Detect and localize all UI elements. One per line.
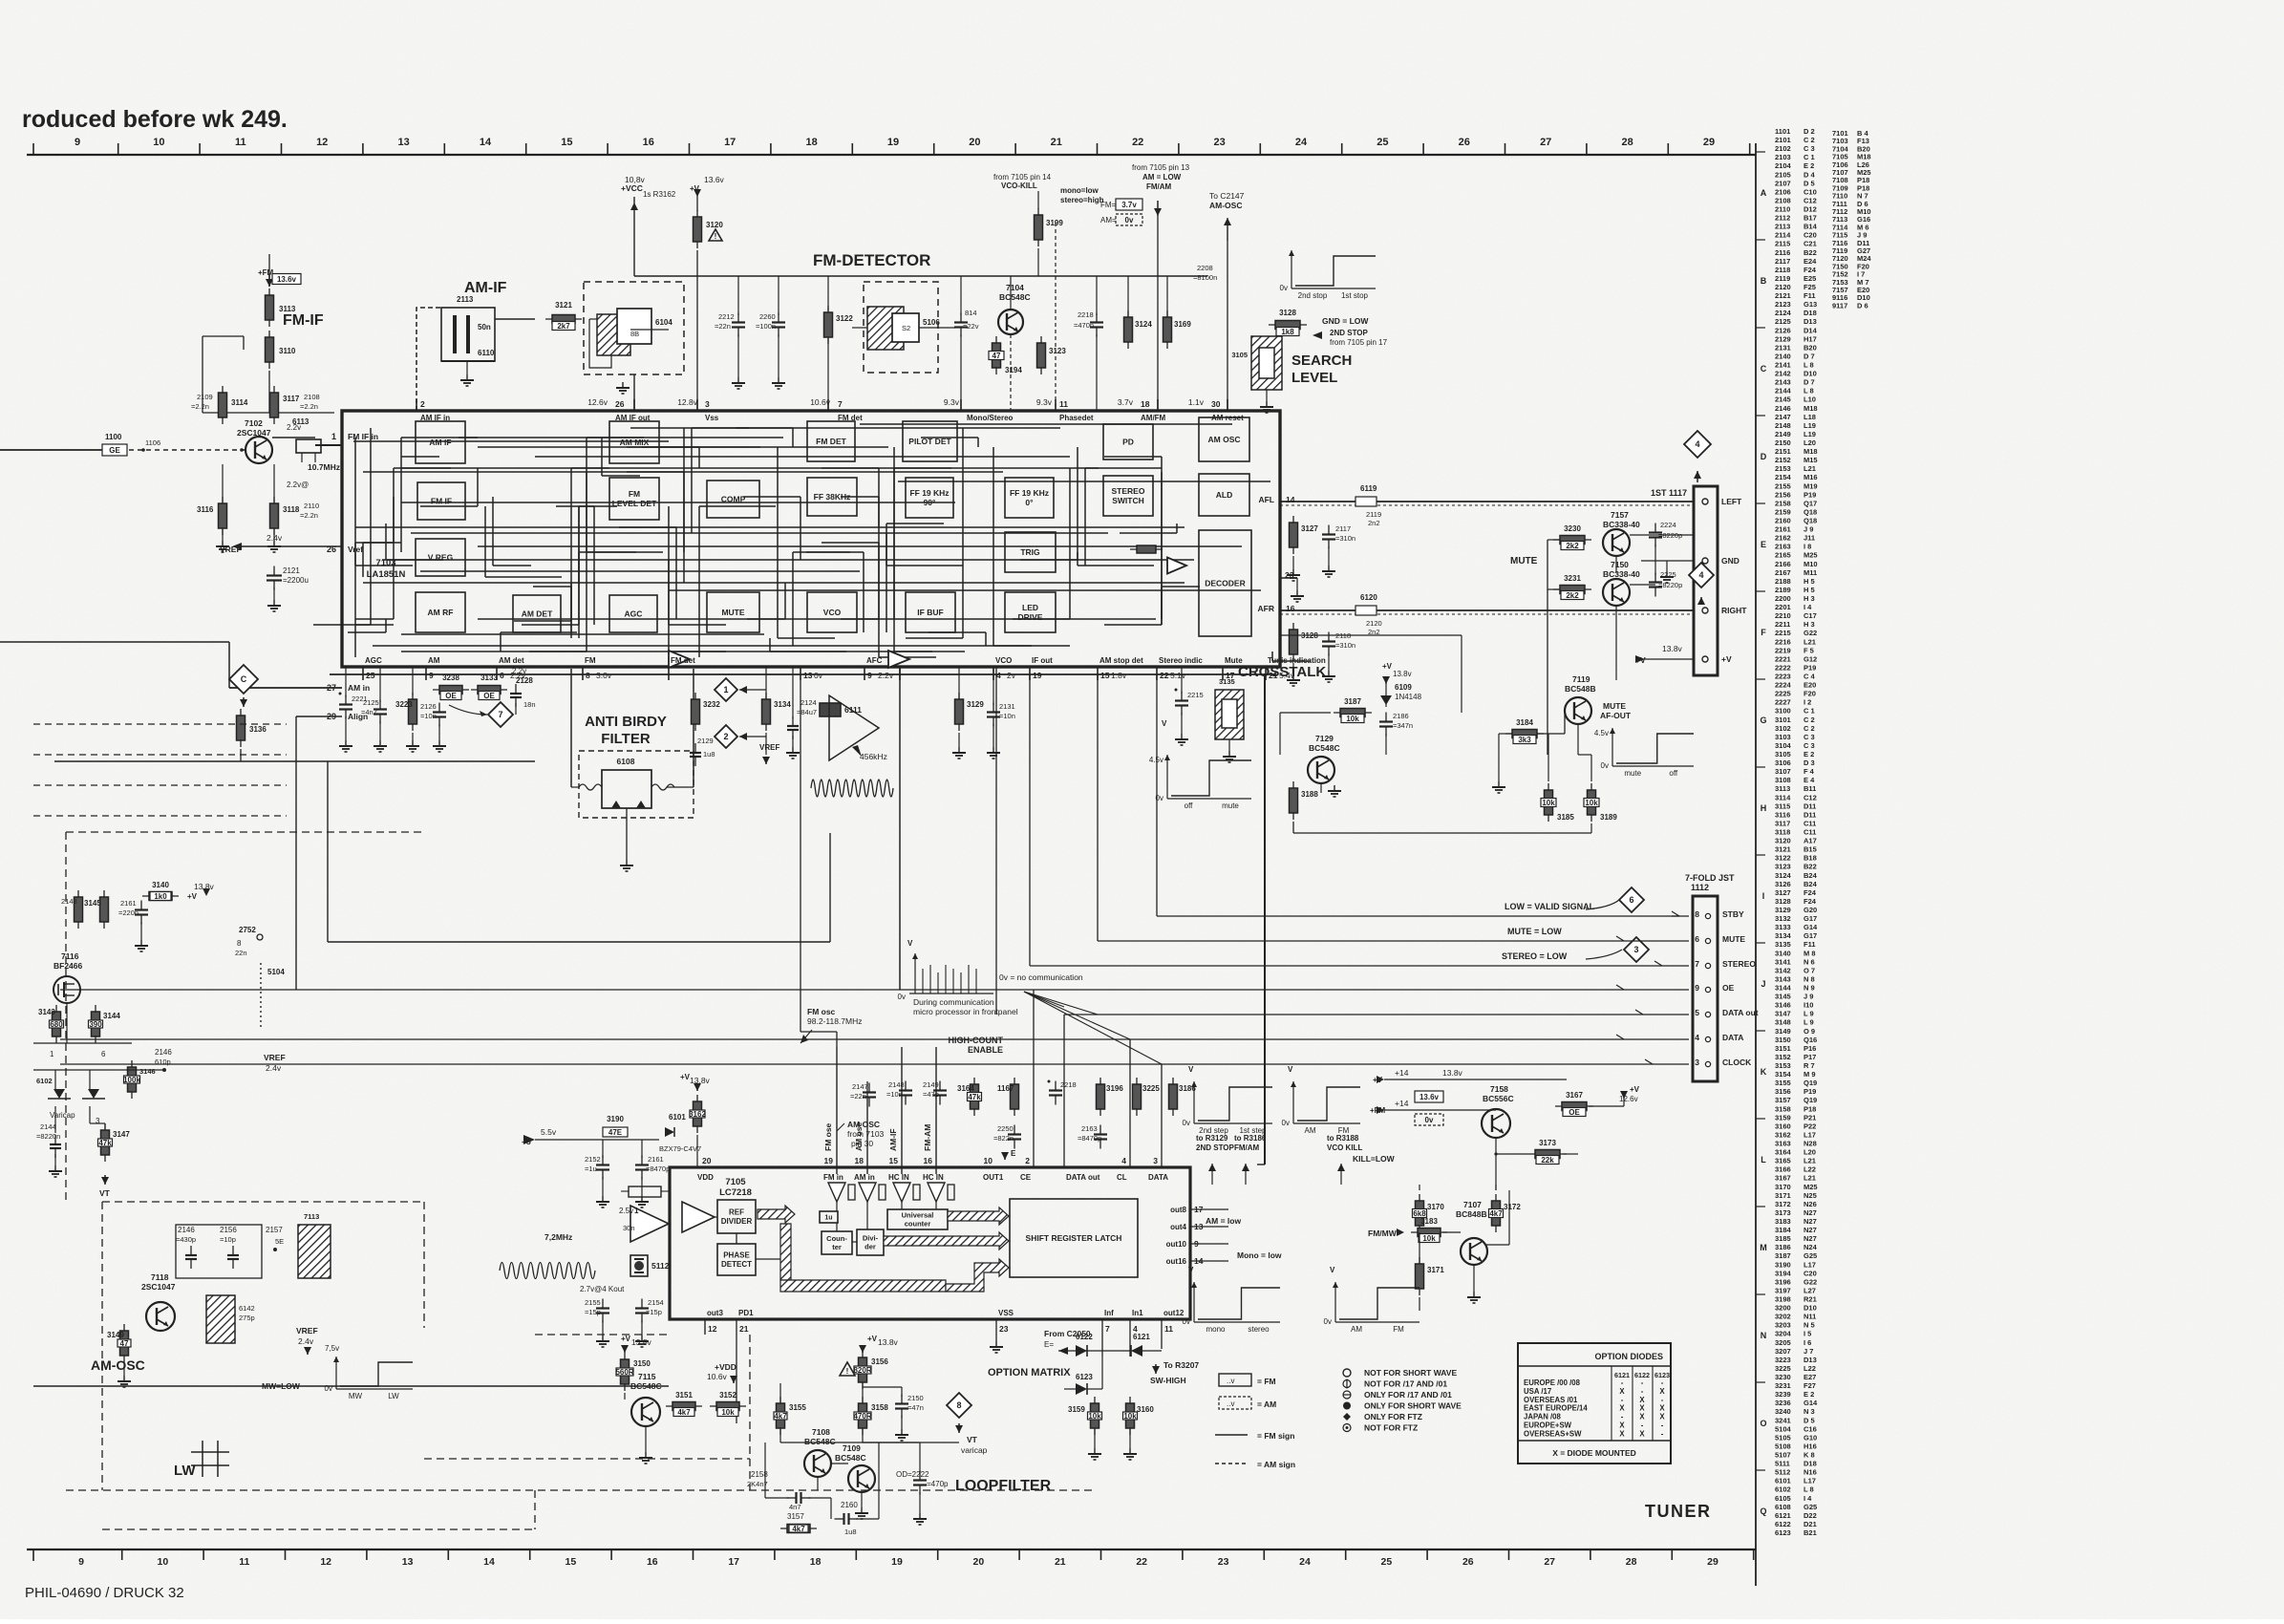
svg-text:AM IF in: AM IF in	[420, 414, 450, 422]
svg-text:C 2: C 2	[1804, 716, 1815, 724]
svg-text:FM/MW: FM/MW	[1368, 1229, 1398, 1238]
svg-text:3187: 3187	[1344, 697, 1361, 706]
svg-text:-: -	[1641, 1378, 1644, 1387]
svg-text:D12: D12	[1804, 205, 1817, 214]
svg-text:ONLY FOR FTZ: ONLY FOR FTZ	[1364, 1412, 1422, 1421]
svg-text:3146: 3146	[139, 1067, 156, 1076]
svg-text:H17: H17	[1804, 334, 1817, 343]
svg-text:GND = LOW: GND = LOW	[1322, 316, 1369, 326]
svg-text:2113: 2113	[457, 295, 474, 304]
svg-text:AM=: AM=	[1100, 216, 1117, 224]
svg-text:0v: 0v	[1125, 216, 1134, 224]
resistor 3145	[103, 890, 105, 929]
svg-text:N27: N27	[1804, 1234, 1817, 1243]
svg-text:C 3: C 3	[1804, 733, 1815, 741]
svg-text:O 9: O 9	[1804, 1027, 1815, 1036]
svg-text:E 2: E 2	[1804, 161, 1814, 170]
svg-text:LOOPFILTER: LOOPFILTER	[955, 1478, 1052, 1494]
svg-text:8: 8	[586, 671, 590, 680]
svg-text:C20: C20	[1804, 231, 1817, 240]
svg-text:2116: 2116	[1775, 248, 1790, 257]
wire filter 6104 down to IC pin	[633, 374, 635, 411]
svg-text:4k7: 4k7	[792, 1525, 805, 1533]
svg-text:2120: 2120	[1366, 619, 1382, 628]
svg-text:from 7103: from 7103	[847, 1129, 885, 1139]
svg-text:22: 22	[1132, 137, 1143, 148]
svg-text:3124: 3124	[1135, 320, 1152, 329]
svg-text:G12: G12	[1804, 654, 1817, 663]
long wire OE	[60, 989, 1689, 991]
svg-text:USA /17: USA /17	[1524, 1387, 1551, 1396]
step waveform off-mute left	[1166, 755, 1168, 799]
step waveform mute off	[1612, 728, 1613, 766]
svg-text:0v: 0v	[898, 993, 906, 1001]
resistor 3115	[222, 497, 224, 535]
IC internal block AGC	[609, 595, 657, 632]
resistor 3169	[1166, 310, 1168, 349]
svg-text:=22n: =22n	[850, 1092, 866, 1100]
svg-text:Phasedet: Phasedet	[1059, 414, 1094, 422]
svg-text:2124: 2124	[1775, 309, 1792, 317]
supply +FM 13.6v	[268, 273, 270, 287]
svg-text:2155: 2155	[1775, 481, 1791, 490]
svg-text:2118: 2118	[1775, 266, 1790, 274]
svg-text:stereo=high: stereo=high	[1060, 196, 1104, 204]
svg-text:ONLY FOR SHORT WAVE: ONLY FOR SHORT WAVE	[1364, 1401, 1462, 1411]
capacitor 2260 100n	[778, 313, 779, 323]
svg-text:5: 5	[1695, 1008, 1699, 1017]
svg-text:to R3188: to R3188	[1327, 1134, 1359, 1143]
svg-text:7: 7	[838, 399, 843, 409]
diamond 4 mid	[1689, 563, 1714, 588]
diamond 6	[1619, 887, 1644, 912]
svg-text:3123: 3123	[1049, 347, 1066, 355]
wire AFL line to connector LEFT	[1280, 501, 1694, 502]
svg-text:P21: P21	[1804, 1113, 1816, 1122]
svg-text:AGC: AGC	[365, 656, 382, 665]
svg-text:6109: 6109	[1395, 683, 1412, 692]
svg-text:L17: L17	[1804, 1260, 1816, 1269]
svg-text:2144: 2144	[1775, 387, 1792, 395]
svg-text:+V: +V	[1382, 662, 1393, 671]
svg-text:11: 11	[1164, 1324, 1173, 1334]
svg-text:27: 27	[1544, 1556, 1555, 1568]
svg-text:=310n: =310n	[1335, 641, 1355, 650]
svg-text:2151: 2151	[1775, 447, 1791, 456]
svg-text:+5: +5	[522, 1137, 531, 1146]
wire FM osc vertical to LC7218	[800, 680, 801, 1032]
svg-text:FM IF in: FM IF in	[348, 432, 378, 441]
svg-text:814: 814	[965, 309, 977, 317]
svg-text:varicap: varicap	[961, 1445, 988, 1455]
svg-text:2106: 2106	[1775, 187, 1791, 196]
svg-text:+V: +V	[187, 892, 198, 901]
wire 7158 collector to resistor 3173	[1495, 1138, 1497, 1190]
svg-text:9.3v: 9.3v	[1036, 397, 1053, 407]
diode 6101	[665, 1127, 674, 1137]
svg-text:D18: D18	[1804, 1460, 1817, 1468]
svg-text:3157: 3157	[787, 1512, 804, 1521]
resistor 3190 47E	[608, 1131, 622, 1133]
resistor 3230	[1553, 539, 1591, 541]
svg-text:B17: B17	[1804, 214, 1817, 223]
svg-text:OE: OE	[1569, 1108, 1580, 1117]
svg-text:IF out: IF out	[1032, 656, 1053, 665]
svg-text:3203: 3203	[1775, 1321, 1791, 1330]
svg-text:7118: 7118	[151, 1272, 169, 1282]
svg-text:AGC: AGC	[625, 609, 643, 618]
capacitor 2224 220p	[1654, 524, 1656, 533]
svg-text:6121: 6121	[1775, 1511, 1791, 1520]
svg-text:DATA: DATA	[1722, 1033, 1743, 1042]
svg-text:SEARCH: SEARCH	[1291, 353, 1352, 369]
svg-text:from 7105 pin 14: from 7105 pin 14	[993, 173, 1052, 182]
svg-text:D 5: D 5	[1804, 179, 1815, 187]
svg-text:X: X	[1639, 1413, 1645, 1421]
capacitor 2125 4n7	[379, 700, 381, 710]
svg-text:24: 24	[1295, 137, 1308, 148]
long wire DATA out	[1064, 1014, 1689, 1015]
svg-text:6102: 6102	[1775, 1485, 1791, 1494]
svg-text:N 6: N 6	[1804, 957, 1815, 966]
svg-text:=47n: =47n	[907, 1403, 924, 1412]
svg-text:47k: 47k	[98, 1139, 112, 1147]
step waveform mono stereo	[1193, 1282, 1195, 1322]
hatched pot 3135 crosstalk	[1215, 690, 1244, 739]
IC internal block VCO	[807, 592, 857, 632]
svg-text:BC338-40: BC338-40	[1603, 569, 1640, 579]
half divider box	[820, 1211, 838, 1223]
svg-text:7104: 7104	[1006, 283, 1024, 292]
svg-text:0v = no communication: 0v = no communication	[999, 972, 1083, 982]
svg-text:AM stop det: AM stop det	[1099, 656, 1143, 665]
svg-text:A: A	[1761, 188, 1767, 198]
svg-text:1101: 1101	[1775, 127, 1790, 136]
svg-text:3171: 3171	[1427, 1266, 1444, 1274]
svg-text:NOT FOR FTZ: NOT FOR FTZ	[1364, 1423, 1418, 1433]
inductor 5104 dotted	[260, 963, 262, 1027]
svg-text:K 8: K 8	[1804, 1451, 1815, 1460]
IC internal block LED DRIVE	[1005, 592, 1056, 632]
svg-text:MUTE: MUTE	[1603, 701, 1626, 711]
resistor 3151 4k7	[666, 1405, 702, 1407]
svg-text:3121: 3121	[1775, 845, 1791, 854]
svg-text:L21: L21	[1804, 637, 1816, 646]
svg-text:27: 27	[1540, 137, 1551, 148]
svg-text:=430p: =430p	[176, 1235, 196, 1244]
svg-text:OVERSEAS+SW: OVERSEAS+SW	[1524, 1429, 1582, 1438]
wire CE vertical	[1033, 990, 1035, 1167]
svg-text:7-FOLD JST: 7-FOLD JST	[1685, 873, 1735, 883]
svg-text:1.8v: 1.8v	[1111, 671, 1127, 680]
svg-text:2227: 2227	[1775, 698, 1791, 707]
svg-text:10: 10	[158, 1556, 169, 1568]
svg-text:3120: 3120	[1775, 837, 1791, 845]
svg-text:LED: LED	[1022, 603, 1038, 612]
svg-text:3187: 3187	[1775, 1251, 1791, 1260]
svg-text:2210: 2210	[1775, 611, 1791, 620]
svg-text:VREF: VREF	[759, 743, 779, 752]
svg-text:22k: 22k	[1541, 1156, 1554, 1165]
svg-text:!: !	[846, 1367, 849, 1376]
wire 7119 collector	[1615, 606, 1617, 680]
wire emitter network	[222, 464, 224, 502]
svg-text:3: 3	[1695, 1058, 1699, 1067]
svg-text:VREF: VREF	[264, 1053, 286, 1062]
svg-text:J 9: J 9	[1804, 525, 1813, 534]
svg-text:1u: 1u	[824, 1214, 832, 1221]
svg-text:3117: 3117	[283, 395, 300, 403]
long wire DATA	[60, 1038, 1689, 1040]
svg-text:+V: +V	[1721, 654, 1732, 664]
svg-text:13.8v: 13.8v	[878, 1337, 899, 1347]
svg-text:C 2: C 2	[1804, 724, 1815, 733]
svg-text:M10: M10	[1804, 560, 1818, 568]
svg-text:3147: 3147	[113, 1130, 130, 1139]
svg-text:E 2: E 2	[1804, 750, 1814, 759]
svg-text:3166: 3166	[1775, 1165, 1791, 1174]
svg-text:7150: 7150	[1611, 560, 1629, 569]
svg-text:AF-OUT: AF-OUT	[1600, 711, 1632, 720]
svg-text:CLOCK: CLOCK	[1722, 1058, 1752, 1067]
svg-text:10k: 10k	[721, 1408, 735, 1417]
svg-text:10k: 10k	[1346, 715, 1359, 723]
warning triangle 2	[840, 1362, 855, 1376]
svg-text:G22: G22	[1804, 629, 1817, 637]
svg-text:ANTI BIRDY: ANTI BIRDY	[585, 714, 667, 730]
svg-text:3169: 3169	[1174, 320, 1191, 329]
svg-text:2200: 2200	[1775, 594, 1791, 603]
resistor 3173 22k	[1528, 1153, 1567, 1155]
svg-text:3102: 3102	[1775, 724, 1791, 733]
resistor 3172	[1495, 1194, 1497, 1232]
diamond 2	[715, 725, 737, 748]
svg-text:2ND STOP: 2ND STOP	[1196, 1143, 1235, 1152]
svg-text:L18: L18	[1804, 413, 1816, 421]
svg-text:3108: 3108	[1775, 776, 1791, 784]
svg-text:=10n: =10n	[420, 712, 437, 720]
svg-text:+V: +V	[690, 184, 700, 193]
op-amp U7103 outline (LA1851N)	[342, 411, 1280, 667]
svg-text:mute: mute	[1222, 801, 1239, 810]
svg-text:3148: 3148	[1775, 1018, 1791, 1027]
svg-text:AM-IF: AM-IF	[464, 280, 507, 296]
svg-text:3120: 3120	[706, 221, 723, 229]
svg-text:3231: 3231	[1775, 1381, 1791, 1390]
svg-text:OE: OE	[1722, 983, 1735, 993]
svg-text:3128: 3128	[1279, 309, 1296, 317]
wire GND connector	[1641, 560, 1694, 562]
svg-text:3170: 3170	[1775, 1183, 1791, 1191]
dashed horizontal bottom	[66, 1489, 1094, 1491]
svg-text:C 1: C 1	[1804, 707, 1815, 716]
svg-text:16: 16	[924, 1156, 933, 1165]
svg-text:X: X	[1639, 1429, 1645, 1438]
svg-text:+V: +V	[1630, 1085, 1640, 1094]
svg-text:VCO: VCO	[823, 608, 842, 617]
svg-text:2126: 2126	[1775, 326, 1791, 334]
svg-text:3135: 3135	[1775, 940, 1791, 949]
svg-text:7105: 7105	[725, 1177, 746, 1187]
svg-text:G20: G20	[1804, 906, 1817, 914]
svg-text:VSS: VSS	[998, 1309, 1014, 1317]
svg-text:-: -	[1621, 1413, 1624, 1421]
svg-text:M18: M18	[1804, 404, 1818, 413]
svg-text:M19: M19	[1804, 481, 1818, 490]
svg-text:13.8v: 13.8v	[1662, 644, 1683, 653]
svg-text:7157: 7157	[1611, 510, 1629, 520]
svg-text:24: 24	[1299, 1556, 1311, 1568]
svg-text:OE: OE	[483, 692, 495, 700]
svg-text:3185: 3185	[1775, 1234, 1791, 1243]
wire varicap rails	[33, 1069, 164, 1071]
svg-text:0v: 0v	[1601, 761, 1609, 770]
resistor 1167	[1014, 1078, 1015, 1116]
svg-text:=470n: =470n	[1074, 321, 1094, 330]
svg-text:1.1v: 1.1v	[1188, 397, 1205, 407]
svg-text:EUROPE /00 /08: EUROPE /00 /08	[1524, 1378, 1581, 1387]
svg-text:9: 9	[75, 137, 80, 148]
resistor 3199	[1037, 208, 1039, 246]
svg-text:B21: B21	[1804, 1528, 1817, 1537]
svg-text:+VCC: +VCC	[621, 183, 643, 193]
svg-text:3146: 3146	[1775, 1001, 1791, 1010]
svg-text:2223: 2223	[1775, 673, 1791, 681]
svg-text:3143: 3143	[38, 1008, 55, 1016]
svg-text:AM = low: AM = low	[1206, 1216, 1241, 1226]
svg-text:C 4: C 4	[1804, 673, 1816, 681]
svg-text:TRIG: TRIG	[1020, 547, 1040, 557]
svg-text:3159: 3159	[1775, 1113, 1791, 1122]
resistor 3171	[1419, 1257, 1420, 1295]
capacitor 2117 10n	[1328, 525, 1330, 535]
svg-text:P19: P19	[1804, 663, 1816, 672]
svg-text:Vref: Vref	[348, 545, 363, 554]
svg-text:50n: 50n	[478, 323, 491, 331]
svg-text:der: der	[865, 1243, 876, 1251]
svg-text:4: 4	[1695, 439, 1699, 449]
svg-text:26: 26	[1462, 1556, 1474, 1568]
svg-text:=470p: =470p	[927, 1480, 949, 1488]
svg-text:F25: F25	[1804, 283, 1816, 291]
svg-text:I 4: I 4	[1804, 603, 1812, 611]
svg-text:1k0: 1k0	[154, 892, 167, 901]
svg-text:3.7v: 3.7v	[1121, 201, 1137, 209]
wire mute control from decoder	[1280, 634, 1462, 636]
dashed bottom left box	[102, 1528, 535, 1530]
svg-text:2145: 2145	[1775, 395, 1791, 404]
svg-text:3230: 3230	[1564, 524, 1581, 533]
discriminator dashed box 5106	[864, 282, 938, 373]
svg-text:V: V	[1330, 1266, 1335, 1274]
svg-text:E=: E=	[1044, 1340, 1054, 1349]
svg-text:E25: E25	[1804, 274, 1816, 283]
svg-text:DECODER: DECODER	[1205, 578, 1246, 588]
svg-text:V: V	[1162, 719, 1167, 728]
svg-text:3190: 3190	[607, 1115, 624, 1123]
boxed 13.6v	[1415, 1091, 1443, 1102]
dashed vertical x=107	[101, 1202, 103, 1490]
svg-text:2166: 2166	[1775, 560, 1791, 568]
svg-text:2156: 2156	[220, 1226, 237, 1234]
svg-text:3150: 3150	[1775, 1036, 1791, 1044]
svg-text:3: 3	[96, 1117, 100, 1125]
svg-text:P18: P18	[1804, 1104, 1816, 1113]
svg-text:=22v: =22v	[963, 322, 979, 331]
IC internal block FF19a	[906, 478, 953, 518]
wires below LC7218	[704, 1319, 706, 1335]
svg-text:!: !	[715, 232, 717, 241]
svg-text:=2.2n: =2.2n	[191, 402, 209, 411]
svg-text:B22: B22	[1804, 863, 1817, 871]
hatched bus to shift register lower	[946, 1259, 1009, 1292]
long wire MUTE	[1098, 940, 1689, 942]
svg-text:D13: D13	[1804, 317, 1817, 326]
svg-text:2123: 2123	[1775, 300, 1791, 309]
svg-text:C20: C20	[1804, 1269, 1817, 1277]
svg-text:3197: 3197	[1775, 1286, 1791, 1294]
svg-text:19: 19	[824, 1156, 834, 1165]
resistor 3120	[696, 210, 698, 248]
wire verticals center buses	[899, 667, 901, 990]
svg-text:=8470p: =8470p	[1078, 1134, 1101, 1143]
svg-text:3241: 3241	[1775, 1416, 1791, 1424]
bottom ruler line	[27, 1549, 1756, 1550]
wire 3170 3172 tops	[1419, 1189, 1420, 1191]
svg-text:2153: 2153	[1775, 464, 1791, 473]
svg-text:6104: 6104	[655, 318, 672, 327]
svg-text:23: 23	[999, 1324, 1009, 1334]
svg-text:=2.2n: =2.2n	[300, 402, 318, 411]
svg-text:25: 25	[1377, 137, 1388, 148]
svg-text:OUT1: OUT1	[983, 1173, 1004, 1182]
svg-text:X: X	[1659, 1404, 1665, 1413]
svg-text:3116: 3116	[197, 505, 214, 514]
svg-text:3124: 3124	[1775, 871, 1792, 880]
svg-text:6: 6	[101, 1050, 106, 1058]
svg-text:M25: M25	[1804, 1183, 1818, 1191]
svg-text:B24: B24	[1804, 880, 1818, 888]
svg-text:M25: M25	[1804, 551, 1818, 560]
svg-text:2110: 2110	[304, 502, 319, 510]
svg-text:9.3v: 9.3v	[944, 397, 960, 407]
svg-text:3185: 3185	[1557, 813, 1574, 822]
svg-text:2146: 2146	[155, 1048, 172, 1057]
wire VT line	[780, 1442, 959, 1443]
svg-text:21: 21	[1051, 137, 1062, 148]
wire 7129 network	[1280, 712, 1331, 714]
svg-text:3115: 3115	[1775, 801, 1790, 810]
svg-text:+VDD: +VDD	[715, 1362, 736, 1372]
svg-text:P19: P19	[1804, 490, 1816, 499]
wires mute transistors	[1630, 534, 1694, 536]
svg-text:3196: 3196	[1106, 1084, 1123, 1093]
svg-text:..v: ..v	[1227, 1377, 1234, 1385]
svg-text:H16: H16	[1804, 1442, 1817, 1450]
svg-text:LEVEL DET: LEVEL DET	[612, 499, 657, 508]
svg-text:I 4: I 4	[1804, 1494, 1812, 1503]
svg-text:FM: FM	[1393, 1325, 1404, 1334]
svg-text:L22: L22	[1804, 1364, 1816, 1373]
option diodes table	[1518, 1343, 1671, 1464]
svg-text:28: 28	[1626, 1556, 1637, 1568]
svg-text:6101: 6101	[669, 1113, 686, 1122]
svg-text:MUTE = LOW: MUTE = LOW	[1507, 927, 1562, 936]
svg-text:15: 15	[566, 1556, 577, 1568]
svg-text:2219: 2219	[1775, 646, 1791, 654]
svg-text:AM: AM	[1305, 1126, 1316, 1135]
step waveform 2nd stop	[1291, 250, 1292, 288]
